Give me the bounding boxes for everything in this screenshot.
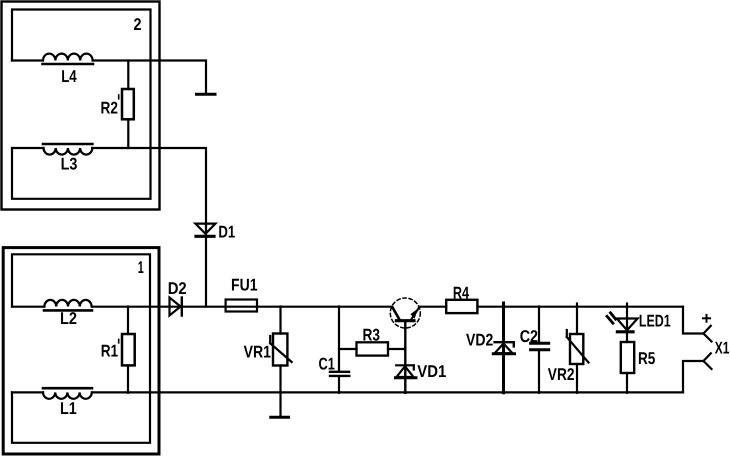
svg-text:L2: L2	[60, 309, 77, 328]
wire L3 left	[12, 147, 44, 149]
wire R1 bottom stem	[127, 365, 129, 392]
wire VR1 top stem	[279, 307, 281, 334]
wire R2 bottom stem	[127, 119, 129, 148]
svg-text:2: 2	[134, 15, 142, 34]
wire L2 right to D2	[92, 306, 226, 308]
wire FU1 to transistor	[257, 306, 391, 308]
ground (VR1)	[271, 416, 289, 419]
plus sign	[703, 315, 710, 322]
wire VR2 top stem	[576, 304, 578, 335]
wire VR2 bottom stem	[576, 364, 578, 393]
svg-text:FU1: FU1	[231, 276, 258, 295]
wire R4 to right corner	[477, 306, 683, 308]
wire X1 bottom to rail	[683, 361, 704, 392]
wire transistor to R4	[419, 306, 446, 308]
svg-text:R5: R5	[638, 349, 655, 368]
box 1 inner wire loop	[12, 254, 150, 442]
wire L1 left	[12, 391, 43, 393]
inductor L4	[43, 54, 94, 64]
fuse FU1	[226, 300, 257, 312]
svg-text:R2: R2	[101, 99, 118, 118]
wire R3 right lead	[388, 348, 405, 350]
wire L4 right to ground corner	[93, 61, 206, 94]
label R2 apostrophe tick	[118, 95, 120, 99]
svg-text:VD2: VD2	[466, 331, 493, 350]
svg-text:1: 1	[138, 258, 144, 277]
ground (box 2)	[197, 93, 216, 96]
box 2 inner wire loop	[12, 10, 151, 199]
svg-text:R1: R1	[101, 342, 118, 361]
wire R2 top stem	[127, 61, 129, 90]
resistor R3	[357, 342, 389, 355]
resistor R1 stems	[127, 307, 129, 335]
svg-text:VR2: VR2	[548, 365, 575, 384]
wire D1 to top rail	[205, 224, 207, 307]
inductor L2	[44, 300, 92, 311]
diode D2	[170, 298, 182, 316]
connector X1 top pin	[704, 326, 712, 342]
box 1 outline	[3, 248, 159, 454]
svg-text:LED1: LED1	[639, 312, 671, 331]
svg-text:X1: X1	[715, 339, 730, 358]
wire C1 top stem	[338, 307, 340, 371]
transistor Q1	[390, 298, 420, 328]
svg-text:C1: C1	[319, 355, 335, 374]
wire bottom rail	[92, 391, 683, 393]
svg-text:D1: D1	[218, 223, 235, 242]
svg-text:D2: D2	[168, 279, 187, 298]
wire R3 left lead	[339, 348, 357, 350]
svg-text:L1: L1	[60, 399, 77, 418]
wire VR1 to ground	[279, 366, 281, 417]
wire transistor base lead	[404, 321, 406, 393]
capacitor C1	[330, 372, 349, 376]
varistor VR2	[567, 330, 589, 364]
inductor L1	[43, 388, 92, 399]
wire L4 left	[12, 59, 43, 61]
wire top rail to X1	[683, 307, 704, 334]
connector X1 bottom pin	[704, 353, 712, 369]
capacitor C2 wire top	[538, 307, 540, 342]
varistor VR1	[270, 334, 292, 366]
resistor R4	[446, 300, 477, 313]
svg-text:R3: R3	[363, 326, 381, 345]
svg-text:VD1: VD1	[417, 362, 446, 381]
capacitor C2	[531, 343, 549, 350]
svg-text:L3: L3	[61, 155, 78, 174]
resistor R2	[122, 89, 134, 119]
zener diode VD2 vertical wire	[502, 303, 505, 393]
svg-text:C2: C2	[520, 327, 538, 346]
LED LED1	[607, 313, 638, 332]
svg-text:VR1: VR1	[244, 343, 271, 362]
zener diode VD2	[493, 342, 514, 354]
svg-text:R4: R4	[453, 284, 470, 303]
wire L3 right to D1 drop	[92, 148, 206, 225]
zener diode VD1	[396, 365, 417, 378]
label R1 apostrophe tick	[118, 340, 120, 343]
wire R5 bottom stem	[626, 373, 628, 393]
capacitor C2 wire bottom	[538, 351, 540, 393]
box 2 outline	[2, 2, 160, 210]
wire C1 bottom stem	[338, 377, 340, 393]
svg-text:L4: L4	[61, 67, 77, 86]
wire L2 left	[12, 306, 44, 308]
resistor R1	[122, 334, 135, 365]
diode D1	[195, 224, 215, 237]
resistor R5	[621, 342, 634, 373]
wire LED1 top stem	[626, 304, 628, 343]
inductor L3	[43, 144, 92, 155]
